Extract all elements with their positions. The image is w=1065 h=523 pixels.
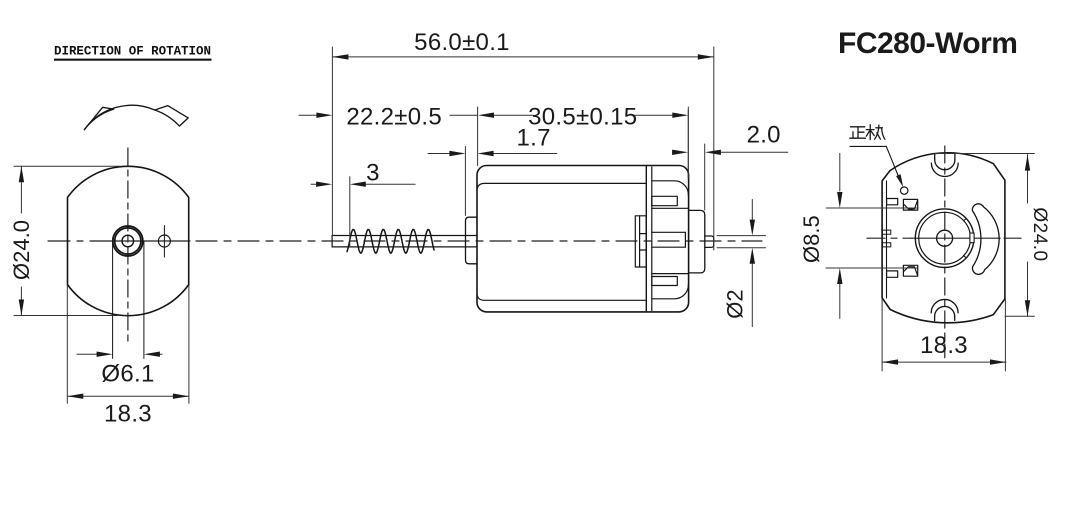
rear view body outline bbox=[882, 153, 1005, 323]
worm shaft bbox=[332, 236, 477, 247]
can / end-cap boundary bbox=[645, 166, 647, 312]
svg-text:18.3: 18.3 bbox=[920, 332, 968, 359]
svg-text:2.0: 2.0 bbox=[747, 122, 781, 149]
dimension 1.7 bbox=[428, 147, 557, 216]
svg-text:Ø2: Ø2 bbox=[722, 289, 747, 318]
rear view horizontal centerline bbox=[867, 237, 911, 239]
dimension 22.2±0.5 bbox=[299, 114, 478, 116]
svg-text:Ø24.0: Ø24.0 bbox=[9, 220, 34, 280]
bearing boss silhouette lines bbox=[112, 241, 114, 358]
end-cap inner wall bbox=[651, 167, 653, 311]
brush holder lower bbox=[652, 277, 678, 286]
bearing boss bold ring bbox=[113, 226, 143, 256]
rear view vertical centerline bbox=[944, 146, 946, 358]
rear bearing boss bbox=[689, 210, 705, 273]
bottom vent notch bbox=[931, 299, 958, 320]
svg-text:18.3: 18.3 bbox=[104, 401, 152, 428]
ring key tab bbox=[970, 233, 974, 243]
front view vertical centerline bbox=[127, 148, 129, 345]
horizontal axis centerline (front + side views) bbox=[48, 240, 96, 242]
svg-text:DIRECTION OF ROTATION: DIRECTION OF ROTATION bbox=[54, 45, 211, 59]
end-cap inner top profile bbox=[652, 181, 689, 196]
ring slits bbox=[964, 219, 967, 221]
rear shaft circle bbox=[937, 230, 953, 246]
svg-text:56.0±0.1: 56.0±0.1 bbox=[414, 29, 510, 56]
label 正极 (positive pole) bbox=[850, 125, 885, 140]
shaft circle bbox=[122, 235, 134, 247]
svg-text:FC280-Worm: FC280-Worm bbox=[838, 27, 1017, 60]
front bearing boss (side view) bbox=[466, 217, 478, 264]
rotation direction curved arrow bbox=[84, 105, 188, 129]
svg-text:3: 3 bbox=[366, 160, 380, 187]
terminal upper bbox=[887, 199, 918, 211]
svg-text:Ø24.0: Ø24.0 bbox=[1029, 207, 1050, 261]
dimension 2.0 (rear boss) bbox=[688, 110, 788, 210]
end-cap inner bottom profile bbox=[652, 284, 689, 299]
can inner top line bbox=[477, 183, 646, 190]
rear view left flange inner line bbox=[886, 181, 888, 298]
dimension 56.0±0.1 bbox=[332, 47, 713, 250]
terminal lower bbox=[887, 265, 918, 277]
commutator window bbox=[652, 231, 686, 233]
svg-text:1.7: 1.7 bbox=[516, 125, 550, 152]
flange side marks bbox=[882, 230, 890, 234]
svg-text:Ø8.5: Ø8.5 bbox=[799, 215, 824, 263]
can inner bottom line bbox=[477, 294, 646, 300]
brush holder upper bbox=[652, 196, 678, 205]
dimension 3 (worm start offset) bbox=[311, 177, 415, 246]
front view body outline bbox=[68, 166, 189, 315]
label 正极 leader bbox=[850, 145, 886, 147]
kidney vent slot bbox=[972, 204, 999, 275]
internal bushing against cap bbox=[635, 216, 646, 267]
dimension 18.3 (rear view) bbox=[882, 299, 1006, 371]
dimension Ø8.5 (rear boss) bbox=[826, 153, 918, 318]
svg-text:22.2±0.5: 22.2±0.5 bbox=[346, 103, 442, 130]
positive terminal marker hole bbox=[901, 187, 908, 194]
dimension Ø6.1 (front view) bbox=[77, 353, 162, 355]
top vent notch bbox=[931, 154, 958, 176]
dimension Ø2 (rear shaft) bbox=[717, 200, 766, 327]
dimension 18.3 (front view) bbox=[67, 285, 189, 403]
rear shaft stub bbox=[705, 236, 714, 247]
dimension 30.5±0.15 bbox=[478, 107, 689, 178]
mounting hole right of shaft bbox=[158, 235, 170, 247]
worm (spring) bbox=[347, 229, 434, 253]
dimension Ø24.0 (front view) bbox=[14, 166, 120, 315]
motor can outline (side view) bbox=[477, 166, 689, 312]
dimension Ø24.0 (rear view) bbox=[935, 154, 1034, 317]
svg-text:Ø6.1: Ø6.1 bbox=[101, 361, 154, 388]
rear bearing boss circles bbox=[915, 209, 974, 268]
